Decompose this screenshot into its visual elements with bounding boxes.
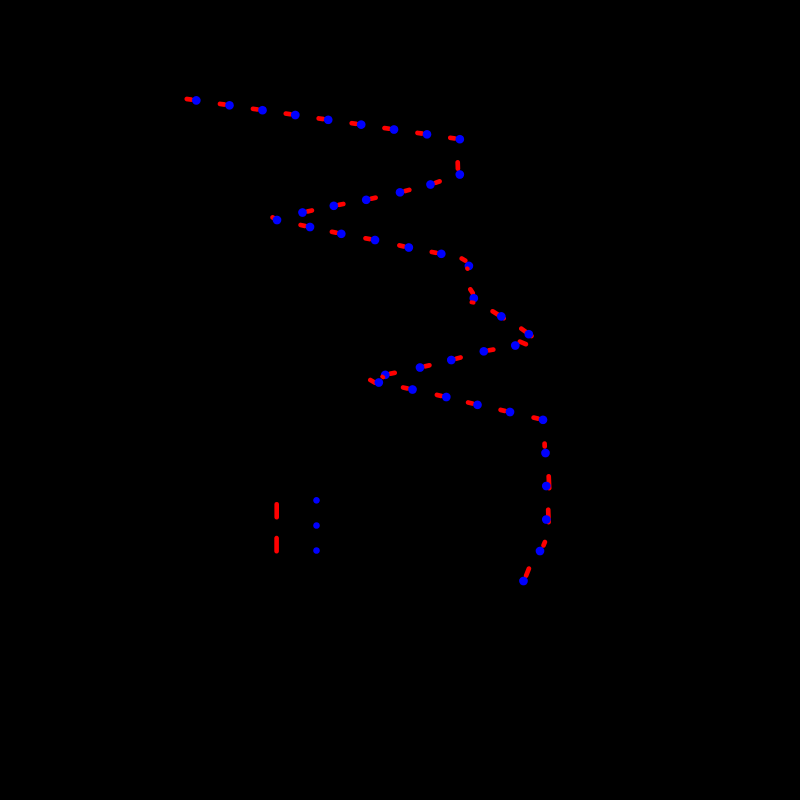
step arrow A17 [301,223,305,229]
iterate point P25 [524,330,533,339]
step arrow A20 [399,245,403,246]
step arrow A38 [546,476,551,488]
iterate point P9 [455,135,464,144]
legend marker dot 3 [313,547,320,554]
step arrow A15 [308,208,312,214]
iterate point P7 [390,125,399,134]
step arrow A23 [470,289,473,293]
iterate point P34 [473,400,482,409]
step arrow A29 [425,365,429,366]
iterate point P17 [306,223,315,232]
step arrow A30 [390,370,394,376]
step arrow A28 [456,358,460,359]
step arrow A39 [546,510,551,522]
iterate point P2 [225,101,234,110]
arrow tip sliver at P23 [472,300,474,304]
iterate point P6 [357,120,366,129]
step arrow A35 [501,410,505,411]
iterate point P31 [374,378,383,387]
iterate point P38 [542,482,551,491]
iterate point P29 [416,363,425,372]
step arrow A13 [371,198,375,199]
iterate point P4 [291,111,300,120]
legend dash sample 2 [274,538,279,551]
step arrow A41 [526,569,529,576]
step arrow A32 [403,385,407,391]
step arrow A36 [534,418,538,419]
step arrow A14 [339,202,343,208]
iterate point P40 [536,547,545,556]
step arrow A1 [187,97,191,102]
iterate point P26 [511,341,520,350]
legend marker dot 2 [313,522,320,529]
step arrow A5 [319,116,323,121]
step arrow A21 [432,250,436,256]
step arrow A40 [544,542,545,545]
iterate point P33 [442,393,451,402]
iterate point P8 [423,130,432,139]
iterate point P21 [437,249,446,258]
iterate point P16 [273,216,282,225]
step arrow A18 [332,229,336,235]
step arrow A33 [437,395,441,396]
step arrow A10 [455,162,460,168]
arrow tip sliver between P30 and P31 [380,375,385,380]
step arrow A9 [450,135,454,140]
iterate point P15 [298,208,307,217]
step arrow A6 [352,121,356,126]
step arrow A4 [286,111,290,116]
iterate point P23 [469,294,478,303]
iterate point P37 [541,449,550,458]
iterate point P20 [404,243,413,252]
step arrow A25 [521,329,531,336]
arrow tip sliver at P22 [465,266,470,271]
iterate point P18 [337,229,346,238]
iterate point P11 [426,180,435,189]
step arrow A8 [418,131,422,136]
iterate point P19 [371,236,380,245]
step arrow A12 [405,190,409,191]
iterate point P3 [258,106,267,115]
step arrow A24 [493,311,504,318]
iterate point P36 [539,415,548,424]
iterate point P27 [479,347,488,356]
step arrow A31 [370,380,375,383]
step arrow A22 [462,259,466,261]
step arrow A11 [436,181,440,182]
iterate point P30 [381,370,390,379]
iterate point P24 [497,312,506,321]
iterate point P35 [506,408,515,417]
step arrow A19 [366,236,370,242]
iterate point P22 [465,262,474,271]
legend marker dot 1 [313,497,320,504]
iterate point P5 [324,115,333,124]
step arrow A37 [542,444,547,447]
iterate point P1 [192,96,201,105]
iterate point P28 [447,356,456,365]
step arrow A7 [385,126,389,131]
iterate point P10 [455,170,464,179]
step arrow A2 [220,102,224,107]
iterate point P14 [329,201,338,210]
step arrow A34 [468,403,472,404]
step arrow A26 [520,342,526,345]
iterate point P39 [542,515,551,524]
step arrow A27 [489,347,493,352]
step arrow A3 [253,106,257,111]
iterate point P41 [519,577,528,586]
legend dash sample 1 [274,504,279,517]
iterate point P32 [408,385,417,394]
iterate point P13 [362,195,371,204]
iterate point P12 [396,188,405,197]
step arrow A16 [273,217,275,218]
